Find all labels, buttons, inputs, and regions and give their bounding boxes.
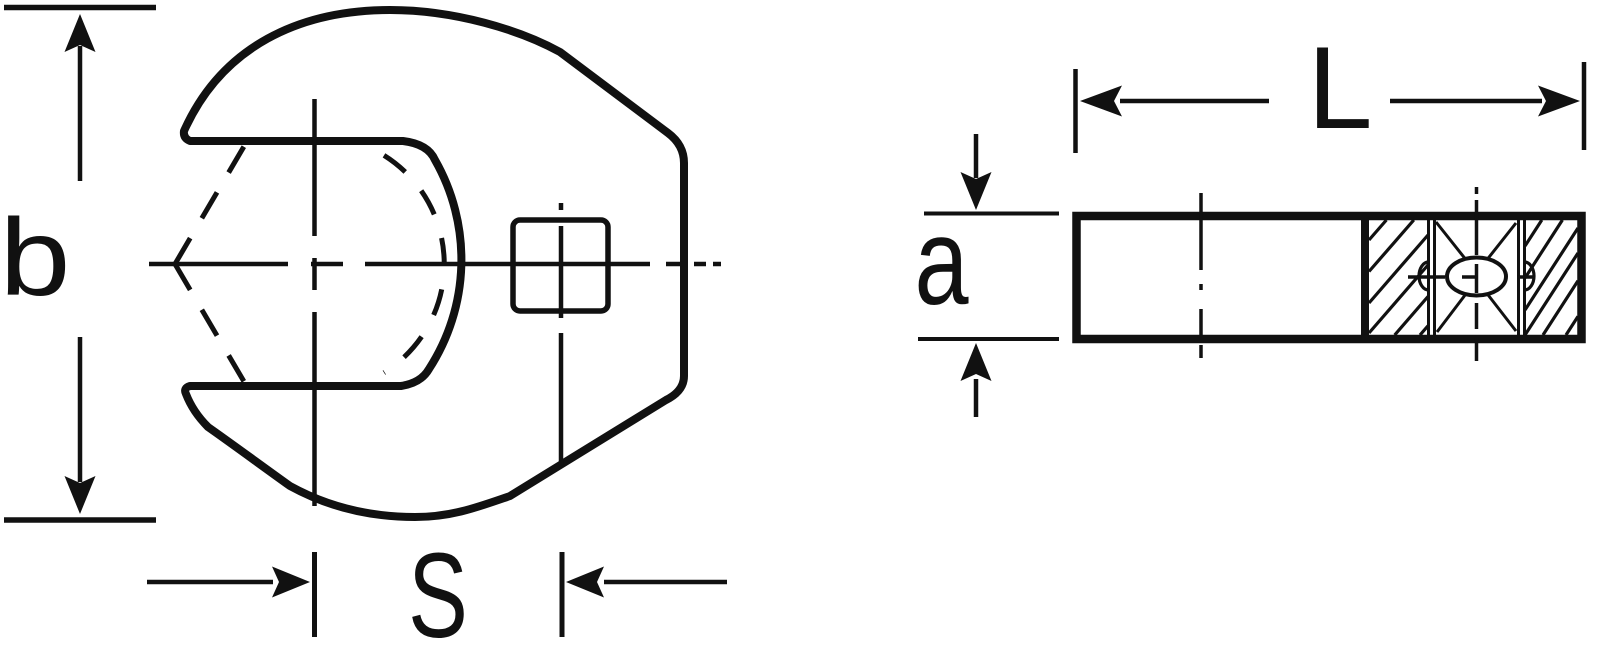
svg-text:S: S (408, 528, 468, 663)
svg-text:a: a (914, 194, 968, 330)
svg-text:b: b (0, 196, 70, 319)
svg-text:L: L (1307, 22, 1372, 153)
